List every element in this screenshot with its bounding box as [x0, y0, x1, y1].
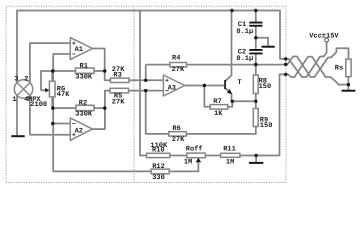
- svg-text:1M: 1M: [226, 158, 234, 166]
- svg-text:T: T: [237, 79, 241, 87]
- svg-text:330K: 330K: [75, 111, 93, 119]
- svg-text:330K: 330K: [75, 74, 93, 82]
- svg-text:1: 1: [12, 96, 16, 104]
- svg-text:1K: 1K: [214, 110, 223, 118]
- svg-text:Roff: Roff: [186, 144, 203, 153]
- svg-text:150: 150: [259, 83, 272, 91]
- svg-text:27K: 27K: [112, 98, 125, 106]
- svg-text:1M: 1M: [184, 158, 192, 166]
- svg-text:R12: R12: [152, 163, 165, 171]
- svg-text:27K: 27K: [172, 136, 185, 144]
- svg-text:A1: A1: [75, 46, 83, 54]
- svg-text:Vcc±15V: Vcc±15V: [309, 32, 339, 40]
- svg-text:0.1µ: 0.1µ: [236, 55, 253, 63]
- svg-text:3: 3: [14, 76, 18, 84]
- svg-text:R2: R2: [79, 99, 87, 107]
- svg-text:0.1µ: 0.1µ: [236, 28, 253, 36]
- svg-text:R10: R10: [152, 146, 165, 154]
- svg-text:2: 2: [24, 76, 28, 84]
- svg-text:R1: R1: [80, 62, 88, 70]
- svg-text:R6: R6: [172, 125, 180, 133]
- svg-text:Rs: Rs: [335, 64, 343, 72]
- svg-text:A2: A2: [75, 128, 83, 136]
- svg-text:R3: R3: [113, 71, 121, 79]
- svg-text:R11: R11: [223, 146, 236, 154]
- svg-text:R7: R7: [213, 98, 221, 106]
- svg-text:150: 150: [260, 122, 273, 130]
- svg-text:2100: 2100: [30, 101, 47, 109]
- svg-text:47K: 47K: [57, 91, 70, 99]
- svg-text:27K: 27K: [172, 66, 185, 74]
- svg-text:R4: R4: [172, 54, 180, 62]
- svg-text:A3: A3: [168, 85, 176, 93]
- svg-text:330: 330: [152, 174, 165, 182]
